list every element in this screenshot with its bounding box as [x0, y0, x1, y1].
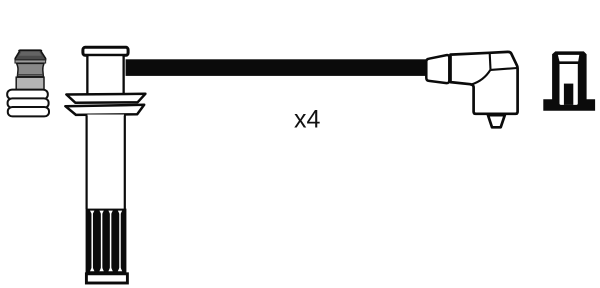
wire-end ferrule — [426, 55, 449, 83]
cheek curve of barrel end — [472, 70, 491, 85]
fold line between bevel face and front face — [491, 68, 518, 70]
right-angle boot nipple — [488, 115, 505, 127]
straight boot: bottom foot band — [86, 274, 127, 283]
svg-text:x4: x4 — [294, 106, 321, 134]
straight boot: skirt flange lower — [65, 105, 144, 115]
straight boot: top cap — [83, 47, 128, 55]
straight boot: ribbed sleeve (black) — [86, 209, 127, 274]
terminal clip (far right, black) — [543, 51, 595, 110]
terminal nut mid barrel — [17, 63, 44, 76]
quantity label x4 — [294, 106, 321, 134]
terminal nut lower cylinder — [16, 77, 44, 90]
terminal nut rib ring 3 — [8, 107, 49, 116]
straight boot: lower cylinder — [87, 115, 125, 210]
ignition wire (main lead) — [126, 59, 427, 76]
terminal nut (left) dome top — [15, 50, 45, 60]
terminal nut light band — [15, 60, 46, 63]
terminal nut rib ring 2 — [8, 98, 49, 107]
straight boot: neck — [87, 56, 123, 95]
right-angle boot body — [451, 52, 518, 114]
straight boot: skirt flange upper — [66, 94, 145, 103]
fold line between barrel and bevel face — [489, 53, 492, 69]
terminal nut rib ring 1 — [7, 90, 48, 100]
